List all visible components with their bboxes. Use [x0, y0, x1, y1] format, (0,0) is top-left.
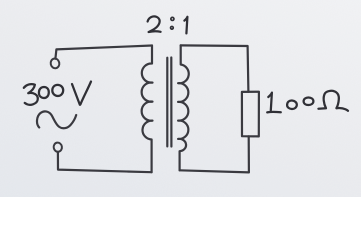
wire: secondary top to resistor R1: [181, 45, 249, 91]
label 300 V: [24, 82, 91, 105]
transformer T1 secondary winding: [178, 45, 189, 170]
label 2:1: [148, 16, 188, 33]
transformer T1 core: [166, 58, 168, 147]
transformer T1 primary winding: [142, 46, 153, 173]
wire: top-left from source terminal to transformer primary: [55, 46, 152, 59]
AC source V1 sine symbol: [37, 111, 76, 128]
label 100 Ω: [267, 91, 348, 113]
resistor R1 body: [242, 92, 259, 137]
wire: bottom-left from source terminal to transformer primary: [58, 152, 152, 172]
wire: resistor R1 bottom to secondary: [180, 136, 249, 172]
AC source V1 top terminal: [50, 58, 60, 69]
AC source V1 bottom terminal: [53, 142, 63, 152]
